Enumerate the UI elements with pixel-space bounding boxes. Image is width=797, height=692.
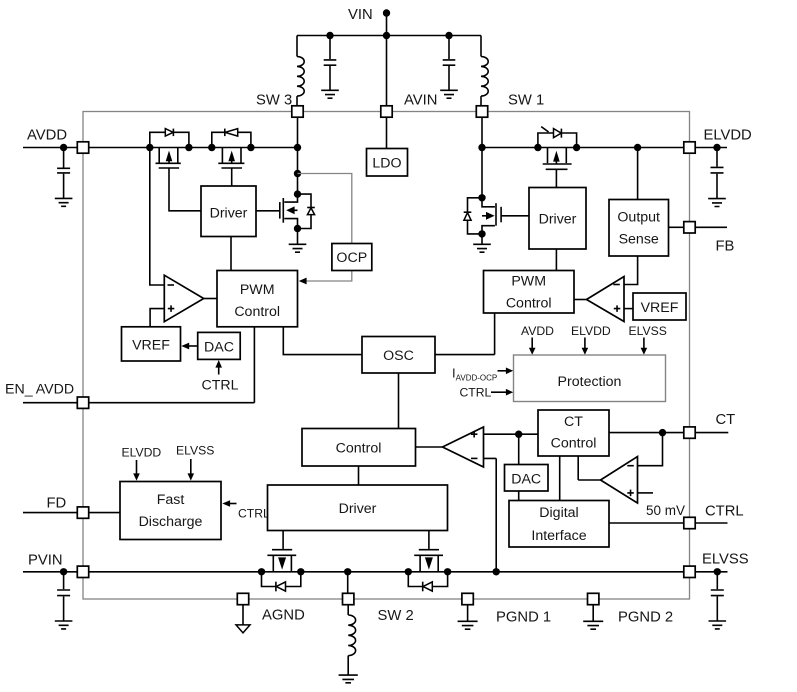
label AVDD — [27, 128, 67, 144]
label PVIN — [28, 553, 63, 569]
label ELVDD (Fast Discharge) — [122, 446, 162, 460]
label SW3 — [256, 93, 292, 109]
pin ELVSS — [684, 566, 695, 577]
wire node to DAC — [518, 434, 520, 464]
svg-text:Control: Control — [506, 296, 552, 312]
svg-text:AGND: AGND — [262, 608, 305, 624]
Driver U11 (SW1) — [529, 188, 586, 250]
node ELVDD external — [713, 144, 720, 151]
junction dots rail — [344, 568, 500, 575]
label I AVDD-OCP — [452, 366, 497, 383]
junction dots Q4 — [258, 568, 305, 575]
svg-text:AVDD: AVDD — [27, 128, 67, 144]
wire PVIN/ELVSS rail — [89, 571, 684, 573]
arrow DAC to VREF — [181, 343, 197, 350]
wire Driver to Q4 gate — [282, 531, 284, 549]
capacitor C5 (ELVSS) — [711, 572, 724, 621]
ground below C5 — [709, 621, 727, 629]
wire A4 plus stub (50 mV) — [638, 492, 654, 494]
DAC U6 (left) — [198, 332, 241, 359]
transistor Q7 (SW1 pass) — [543, 148, 572, 170]
arrow AVDD into Protection — [529, 338, 536, 355]
diode D7 (over Q7, with tick) — [538, 127, 577, 148]
transistor Q4 (bottom left) — [267, 550, 296, 572]
arrow CTRL into DAC — [215, 360, 222, 375]
wire VIN vertical to AVIN pin — [386, 13, 388, 106]
VREF U5 (left) — [122, 327, 181, 361]
label PGND2 — [618, 610, 673, 626]
label EN_AVDD — [5, 382, 74, 398]
capacitor C1 (VIN left) — [324, 36, 337, 91]
wire OCP sense (gray) — [298, 174, 352, 244]
svg-text:CT: CT — [716, 412, 736, 428]
svg-text:FD: FD — [47, 496, 67, 512]
label FD — [47, 496, 67, 512]
wire OSC to right PWM Control — [435, 313, 495, 355]
svg-text:PVIN: PVIN — [28, 553, 63, 569]
svg-text:AVIN: AVIN — [404, 93, 437, 109]
svg-text:Control: Control — [234, 304, 280, 320]
svg-text:VREF: VREF — [641, 300, 679, 316]
label CTRL (pin) — [705, 504, 744, 520]
inductor L1 (to SW3) — [297, 36, 304, 106]
svg-text:ELVSS: ELVSS — [176, 444, 214, 458]
body diode D4 (Q4, pointing left) — [262, 572, 301, 592]
label CT — [716, 412, 736, 428]
label CTRL (DAC) — [202, 378, 239, 394]
label FB — [716, 239, 735, 255]
svg-text:ELVSS: ELVSS — [702, 552, 749, 568]
wire PVIN external — [23, 571, 77, 573]
Output Sense U12 — [609, 200, 669, 257]
label CTRL (Protection) — [460, 386, 492, 400]
Driver U2 (SW3) — [201, 186, 256, 237]
pin EN_AVDD — [77, 397, 88, 408]
ground PGND1 — [458, 605, 478, 629]
junction dots Q6 — [478, 194, 485, 237]
ground below C2 — [440, 90, 458, 98]
ground below C3 — [55, 198, 73, 206]
wire Control to comparator A2 — [416, 446, 443, 448]
svg-text:CTRL: CTRL — [202, 378, 239, 394]
svg-text:Protection: Protection — [558, 374, 622, 390]
wire top input rail — [297, 35, 481, 37]
svg-text:LDO: LDO — [372, 156, 401, 172]
pin SW1 — [476, 106, 487, 117]
wire CT Control to CT pin — [609, 432, 684, 434]
wire VREF to A1 non-inverting input — [150, 309, 164, 327]
arrow IAVDD-OCP into Protection — [498, 368, 514, 375]
pin FD — [77, 507, 88, 518]
node DAC feed — [515, 431, 522, 438]
arrow ELVDD into Fast Discharge — [133, 460, 140, 481]
wire ELVDD external — [695, 147, 727, 149]
svg-text:EN_ AVDD: EN_ AVDD — [5, 382, 74, 398]
arrow CTRL into Protection — [491, 389, 513, 396]
capacitor C4 (PVIN) — [57, 572, 70, 621]
OSC U7 — [362, 337, 435, 374]
pin AVDD — [77, 142, 88, 153]
wire OCP to PWM Control (gray) — [299, 271, 352, 285]
transistor Q2 — [218, 148, 244, 169]
ground PGND2 — [583, 605, 603, 629]
wire ELVDD internal rail — [482, 147, 684, 149]
Driver U10 (output driver) — [268, 485, 448, 531]
svg-text:Sense: Sense — [619, 232, 659, 248]
svg-text:Fast: Fast — [157, 492, 185, 508]
wire Q2 gate to Driver top — [231, 168, 233, 186]
pin PGND1 — [462, 593, 473, 604]
svg-text:PWM: PWM — [240, 282, 275, 298]
diode D1 (over Q1, pointing right) — [150, 129, 189, 148]
svg-text:PGND 2: PGND 2 — [618, 610, 673, 626]
svg-text:Driver: Driver — [210, 205, 248, 221]
body diode D5 (Q5, pointing left) — [408, 572, 447, 592]
CT Control U16 — [538, 410, 609, 456]
svg-text:AVDD: AVDD — [521, 324, 554, 338]
arrow ELVSS into Fast Discharge — [188, 459, 195, 481]
svg-text:Driver: Driver — [339, 501, 377, 517]
wire EN_AVDD — [23, 327, 254, 403]
svg-text:Control: Control — [551, 436, 597, 452]
ground below L3 — [339, 675, 358, 683]
wire ELVSS external — [695, 571, 727, 573]
inductor L3 (SW2) — [348, 605, 355, 675]
junction dots Q3 drain/source — [294, 190, 301, 232]
label AVIN — [404, 93, 437, 109]
wire CT external — [695, 432, 728, 434]
wire A2 minus input to ELVSS rail — [484, 458, 497, 571]
pin PGND2 — [588, 593, 599, 604]
wire Output Sense to FB pin — [669, 226, 684, 228]
wire Driver to PWM Control R — [555, 249, 557, 271]
svg-text:DAC: DAC — [204, 340, 234, 356]
junction dot SW3/OCP tap — [294, 170, 301, 177]
label PGND1 — [496, 610, 551, 626]
wire A2 plus input to CT Control — [484, 433, 539, 435]
capacitor C6 (ELVDD) — [711, 148, 724, 199]
VREF U14 (right) — [633, 293, 686, 320]
label ELVDD (Protection) — [571, 324, 611, 338]
svg-text:FB: FB — [716, 239, 735, 255]
node VIN — [348, 7, 390, 23]
pin CTRL — [684, 517, 695, 528]
svg-text:Control: Control — [336, 441, 382, 457]
svg-text:CTRL: CTRL — [460, 386, 492, 400]
svg-text:ELVSS: ELVSS — [629, 324, 667, 338]
wire Control to Driver — [358, 466, 360, 485]
junction dots Q5 — [405, 568, 452, 575]
svg-text:Interface: Interface — [531, 528, 586, 544]
svg-text:VIN: VIN — [348, 7, 373, 23]
svg-text:ELVDD: ELVDD — [122, 446, 162, 460]
label SW1 — [508, 93, 544, 109]
label AVDD (Protection) — [521, 324, 554, 338]
svg-text:SW 2: SW 2 — [378, 608, 414, 624]
svg-text:50 mV: 50 mV — [646, 503, 685, 518]
junction dots ELVDD rail — [478, 144, 641, 151]
pin CT — [684, 427, 695, 438]
svg-text:Output: Output — [617, 210, 660, 226]
pin SW2 — [343, 593, 354, 604]
pin AVIN — [381, 106, 392, 117]
pin SW3 — [292, 106, 303, 117]
wire OSC to Control — [398, 373, 400, 429]
wire CT branch to A4 minus — [638, 433, 663, 466]
node AVDD external — [60, 144, 67, 151]
ground below C4 — [55, 621, 73, 629]
pin AGND — [237, 593, 248, 604]
wire Q6 gate to Driver — [501, 215, 529, 217]
svg-text:ELVDD: ELVDD — [571, 324, 611, 338]
op-amp A1 (left comparator) — [164, 275, 217, 322]
PWM Control U4 (left) — [217, 271, 298, 327]
wire AVDD to A1 inverting input — [150, 148, 165, 286]
svg-text:CT: CT — [564, 414, 583, 430]
op-amp A2 (middle comparator) — [443, 427, 484, 467]
wire Driver to Q5 gate — [428, 531, 430, 549]
pin ELVDD — [684, 142, 695, 153]
pin FB — [684, 222, 695, 233]
node PVIN external — [60, 568, 67, 575]
wire AVDD internal rail — [89, 147, 298, 149]
body diode D6 (Q6) — [464, 198, 482, 234]
svg-text:ELVDD: ELVDD — [704, 128, 752, 144]
wire Q1 gate to Driver — [169, 168, 201, 211]
AGND stub and signal ground — [236, 605, 250, 633]
label ELVSS (pin) — [702, 552, 749, 568]
diode D2 (over Q2, pointing left) — [212, 129, 251, 148]
wire SW1 vertical net — [481, 117, 483, 198]
LDO U1 — [367, 117, 408, 176]
wire FD — [23, 512, 120, 514]
label SW2 — [378, 608, 414, 624]
op-amp A4 (50mV comparator) — [601, 457, 638, 504]
chip boundary — [83, 112, 690, 600]
svg-text:VREF: VREF — [132, 338, 170, 354]
svg-text:Digital: Digital — [539, 505, 578, 521]
svg-text:Discharge: Discharge — [139, 514, 203, 530]
svg-text:SW 3: SW 3 — [256, 93, 292, 109]
svg-text:OSC: OSC — [383, 348, 414, 364]
svg-text:CTRL: CTRL — [238, 507, 270, 521]
wire AVDD external — [23, 147, 77, 149]
svg-text:DAC: DAC — [511, 472, 541, 488]
ground below Q6 — [473, 234, 491, 252]
svg-text:SW 1: SW 1 — [508, 93, 544, 109]
wire VREF to A3 plus — [624, 308, 633, 310]
Digital Interface U18 — [509, 501, 609, 548]
label 50 mV — [646, 503, 685, 518]
wire Q7 gate to Driver — [555, 169, 557, 187]
svg-text:OCP: OCP — [336, 250, 367, 266]
wire CTRL external — [695, 522, 727, 524]
transistor Q5 (bottom right) — [414, 550, 443, 572]
PWM Control U13 (right) — [484, 271, 575, 314]
svg-text:PGND 1: PGND 1 — [496, 610, 551, 626]
OCP U3 — [332, 244, 372, 271]
wire Driver to Q3 gate — [256, 210, 280, 212]
arrow ELVDD into Protection — [582, 338, 589, 355]
wire DAC to Digital Interface — [518, 491, 520, 501]
ground below C1 — [321, 90, 339, 98]
wire SW3 vertical net — [297, 117, 299, 194]
ground below Q3 — [289, 229, 307, 253]
wire Driver to PWM Control — [230, 237, 232, 271]
wire Output Sense to ELVDD rail — [637, 148, 639, 200]
arrow CTRL into Fast Discharge — [222, 500, 270, 520]
wire PWM Control to OSC — [283, 327, 362, 355]
pin PVIN — [77, 566, 88, 577]
svg-text:PWM: PWM — [511, 274, 546, 290]
Control U9 — [302, 429, 416, 467]
wire Output Sense to A3 minus — [624, 256, 638, 285]
capacitor C3 (AVDD) — [57, 148, 70, 199]
wire A4 output to CT Control — [578, 456, 600, 480]
svg-text:CTRL: CTRL — [705, 504, 744, 520]
label ELVSS (Fast Discharge) — [176, 444, 214, 458]
inductor L2 (to SW1) — [481, 36, 488, 106]
svg-text:Driver: Driver — [539, 212, 577, 228]
junction dots on top rail — [326, 32, 452, 39]
capacitor C2 (VIN right) — [443, 36, 456, 91]
transistor Q1 — [156, 148, 181, 169]
Protection U15 — [514, 355, 666, 402]
DAC U17 (right) — [505, 465, 549, 492]
junction dots AVDD rail — [146, 144, 301, 151]
node ELVSS external — [714, 568, 721, 575]
node CT branch — [659, 429, 666, 436]
transistor Q6 (SW1 main switch) — [482, 198, 501, 234]
wire FB external — [695, 226, 727, 228]
label AGND — [262, 608, 305, 624]
Fast Discharge U8 — [120, 482, 221, 540]
label ELVSS (Protection) — [629, 324, 667, 338]
transistor Q3 (SW3 main switch) — [280, 194, 298, 228]
wire CT Control to Digital Interface — [559, 456, 561, 501]
wire Digital Interface to CTRL pin — [609, 522, 684, 524]
body diode D3 (Q3) — [298, 194, 315, 228]
ground below C6 — [708, 199, 726, 207]
label ELVDD (pin) — [704, 128, 752, 144]
arrow ELVSS into Protection — [641, 338, 648, 355]
op-amp A3 (right comparator) — [574, 277, 624, 322]
wire SW2 drop — [347, 572, 349, 594]
